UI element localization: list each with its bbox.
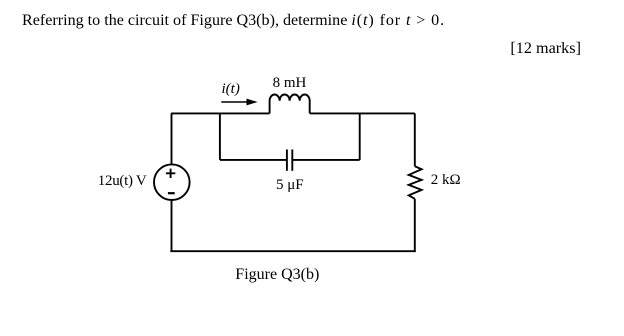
label 8 mH (273, 76, 307, 91)
wire inner-loop right vertical (359, 113, 361, 159)
resistor R1 2k (409, 166, 422, 199)
current arrow i(t) (221, 101, 248, 103)
inductor L1 8mH (270, 95, 310, 114)
wire right vertical lower (414, 199, 416, 251)
wire top-right horizontal (310, 112, 415, 114)
label i(t) (222, 82, 240, 97)
label 5 uF (276, 178, 304, 193)
wire capacitor right horizontal (292, 159, 359, 161)
minus sign (168, 192, 175, 194)
voltage source V1 12u(t) (154, 164, 190, 200)
capacitor C1 5uF plates (286, 150, 288, 171)
figure caption (235, 267, 319, 283)
wire bottom horizontal (170, 250, 415, 252)
wire left vertical lower (171, 200, 173, 251)
wire left vertical upper (171, 113, 173, 164)
wire capacitor left horizontal (220, 159, 287, 161)
label 12u(t) V (98, 174, 147, 189)
marks label (510, 40, 581, 56)
label 2 kOhm (431, 173, 461, 188)
plus sign (166, 169, 175, 178)
question text (22, 13, 445, 29)
wire inner-loop left vertical (219, 113, 221, 159)
wire top-left horizontal (171, 112, 269, 114)
wire right vertical upper (414, 113, 416, 166)
